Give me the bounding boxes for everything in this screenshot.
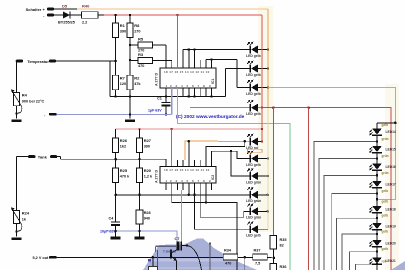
node	[267, 210, 270, 213]
wire	[54, 14, 63, 16]
op-amp U IC1 A277D	[155, 60, 217, 97]
wire	[272, 249, 274, 258]
wire pale yellow	[267, 108, 269, 230]
wire LED3 feed	[206, 60, 250, 88]
LED L10	[246, 221, 261, 237]
connector Schalter -	[43, 13, 54, 18]
resistor R26	[113, 129, 128, 152]
node	[114, 95, 117, 98]
svg-text:LED gelb: LED gelb	[246, 54, 261, 58]
wire	[376, 264, 378, 270]
node	[188, 48, 191, 51]
wire	[376, 213, 378, 223]
capacitor C4	[100, 194, 121, 240]
resistor R37	[253, 249, 268, 266]
svg-text:1k2: 1k2	[120, 145, 126, 149]
svg-text:470 k: 470 k	[120, 175, 130, 179]
LED L9	[246, 204, 261, 220]
svg-text:2 3 4 5 6 7 8: 2 3 4 5 6 7 8	[170, 179, 206, 183]
svg-text:R27: R27	[144, 138, 152, 143]
resistor R35	[270, 236, 286, 250]
wire pink	[116, 128, 262, 130]
wire orange right	[267, 9, 269, 108]
node	[138, 158, 141, 161]
capacitor C1	[148, 97, 171, 115]
wire	[258, 107, 262, 109]
resistor R25	[113, 159, 131, 182]
wire	[115, 61, 117, 75]
node	[267, 194, 270, 197]
node	[376, 250, 379, 253]
node	[114, 230, 117, 233]
wire	[165, 158, 167, 161]
ground	[135, 237, 145, 240]
svg-text:470: 470	[138, 64, 144, 68]
svg-text:gelb: gelb	[382, 229, 389, 233]
watermark blue triangle	[140, 239, 405, 270]
wire curve	[187, 246, 202, 270]
LED L1	[246, 42, 261, 58]
node	[165, 95, 168, 98]
wire	[139, 224, 141, 237]
LED L5	[246, 134, 259, 150]
node	[129, 113, 132, 116]
svg-text:940: 940	[144, 217, 150, 221]
ground	[12, 120, 22, 123]
wire	[376, 135, 378, 146]
svg-text:2.2: 2.2	[82, 21, 87, 25]
wire bus 8	[356, 264, 378, 270]
svg-text:LED grün: LED grün	[246, 180, 261, 184]
wire blue IC2 pin	[180, 190, 182, 242]
svg-text:+: +	[44, 113, 46, 117]
svg-text:900 bei 22°C: 900 bei 22°C	[22, 100, 45, 104]
wire	[376, 230, 378, 240]
op-amp U IC2 A277D	[155, 160, 217, 190]
svg-text:IC1: IC1	[211, 79, 215, 84]
wire	[267, 256, 274, 259]
node	[193, 194, 196, 197]
LED LED17	[369, 181, 396, 188]
node	[165, 113, 168, 116]
svg-text:R2: R2	[134, 76, 140, 81]
node	[210, 95, 213, 98]
wire dark red low	[308, 108, 310, 270]
node	[170, 128, 173, 131]
node	[114, 158, 117, 161]
resistor R5	[138, 37, 153, 53]
wire	[376, 247, 378, 258]
wire blue 2	[105, 231, 177, 242]
node	[267, 86, 270, 89]
svg-text:R40: R40	[82, 4, 90, 9]
resistor R28	[136, 210, 151, 224]
svg-text:R35: R35	[280, 238, 287, 242]
wire	[116, 152, 140, 159]
node	[376, 263, 379, 266]
node	[138, 194, 141, 197]
node	[138, 128, 141, 131]
wire	[153, 60, 172, 62]
node	[129, 14, 132, 17]
svg-text:R4: R4	[22, 93, 28, 98]
wire bus 2	[319, 158, 377, 270]
node	[376, 157, 379, 160]
resistor R8	[127, 15, 141, 37]
transistor T1	[156, 246, 177, 270]
wire	[115, 182, 117, 194]
wire LED7 feed	[231, 151, 250, 176]
label grun 0	[382, 137, 389, 141]
svg-text:R20: R20	[144, 168, 152, 173]
node	[307, 106, 310, 109]
wire	[189, 190, 195, 195]
wire	[16, 106, 18, 119]
node	[267, 175, 270, 178]
LED L2	[246, 61, 261, 77]
wire	[130, 44, 138, 46]
node	[15, 230, 18, 233]
wire	[376, 188, 378, 206]
svg-text:R1: R1	[120, 23, 126, 28]
wire	[258, 87, 268, 89]
svg-text:C1: C1	[157, 97, 162, 101]
wire	[188, 141, 190, 160]
wire bus 1	[314, 142, 377, 270]
connector 5.2V	[33, 256, 57, 260]
svg-text:gelb: gelb	[382, 189, 389, 193]
svg-text:LED grün: LED grün	[246, 199, 261, 203]
svg-text:390: 390	[120, 30, 126, 34]
resistor R40	[82, 4, 99, 25]
label grun 1	[382, 154, 389, 158]
svg-text:120: 120	[120, 82, 126, 86]
connector aux	[44, 113, 57, 118]
svg-text:Tank: Tank	[38, 154, 48, 159]
svg-text:R34: R34	[224, 249, 232, 253]
node	[376, 233, 379, 236]
node	[193, 48, 196, 51]
wire	[258, 68, 268, 70]
node	[376, 174, 379, 177]
LED LED16	[369, 164, 396, 171]
svg-text:LED18: LED18	[386, 208, 396, 212]
resistor R3	[138, 52, 153, 68]
svg-text:2 3 4 5 6 7 8: 2 3 4 5 6 7 8	[170, 84, 206, 88]
svg-text:gelb: gelb	[382, 247, 389, 251]
wire bus 5	[337, 218, 377, 270]
node	[186, 244, 189, 247]
label gelb top	[382, 123, 389, 127]
resistor R38 bottom	[148, 250, 158, 270]
svg-text:R28: R28	[144, 211, 151, 215]
wire 5.2V rail	[57, 256, 224, 258]
wire	[17, 157, 29, 210]
wire bus 6	[342, 234, 377, 270]
node	[394, 122, 397, 125]
wire	[70, 14, 81, 16]
node	[188, 194, 191, 197]
svg-text:LED16: LED16	[386, 165, 396, 169]
LED LED21	[369, 258, 396, 265]
svg-text:gelb: gelb	[382, 214, 389, 218]
diode D5	[58, 4, 75, 25]
svg-text:R7: R7	[120, 76, 126, 81]
ground	[12, 238, 22, 241]
resistor R34	[223, 249, 238, 266]
wire LED8 feed	[116, 194, 251, 196]
LED L4	[246, 100, 261, 116]
node	[376, 217, 379, 220]
svg-text:270: 270	[134, 30, 140, 34]
svg-text:R36: R36	[280, 265, 287, 269]
wire	[258, 175, 268, 177]
svg-text:gelb: gelb	[382, 123, 389, 127]
LED L7	[246, 168, 261, 184]
node	[188, 95, 191, 98]
svg-text:390: 390	[144, 145, 150, 149]
label grun 6	[382, 247, 389, 251]
wire	[153, 45, 166, 60]
svg-text:R8: R8	[134, 23, 140, 28]
text copyright	[176, 114, 245, 120]
wire bus 4	[332, 194, 377, 270]
LED LED18	[369, 206, 396, 213]
wire LED1 feed	[183, 50, 250, 61]
svg-text:LED gelb: LED gelb	[246, 112, 261, 116]
svg-text:A 277 D: A 277 D	[155, 170, 159, 183]
svg-text:grün: grün	[382, 171, 389, 175]
resistor R20	[136, 159, 153, 182]
wire	[258, 210, 268, 212]
svg-text:grün: grün	[382, 137, 389, 141]
node	[129, 44, 132, 47]
connector Schalter +	[26, 7, 55, 12]
node	[138, 230, 141, 233]
wire dark red row4	[262, 108, 391, 270]
node	[376, 140, 379, 143]
wire orange LED5 feed	[185, 141, 250, 160]
wire	[258, 228, 268, 230]
wire	[139, 182, 141, 210]
svg-text:18 17 16 15 14 13 12 11 10: 18 17 16 15 14 13 12 11 10	[164, 70, 210, 74]
svg-text:R25: R25	[120, 168, 128, 173]
resistor R36	[270, 258, 286, 270]
wire LED10 feed	[195, 195, 251, 229]
label grun 4	[382, 214, 389, 218]
wire	[205, 190, 207, 203]
wire blue	[57, 113, 172, 115]
wire red +supply	[104, 14, 262, 16]
node	[376, 192, 379, 195]
label grun 5	[382, 229, 389, 233]
wire green	[177, 88, 290, 270]
node	[267, 67, 270, 70]
wire	[129, 90, 131, 97]
node	[210, 58, 213, 61]
svg-text:LED grün: LED grün	[246, 216, 261, 220]
wire string top	[377, 123, 396, 129]
resistor R1	[113, 15, 127, 37]
node	[261, 140, 264, 143]
svg-text:D5: D5	[62, 4, 68, 9]
wire wrap right of IC1	[225, 69, 250, 97]
node	[205, 201, 208, 204]
wire red to pin	[176, 15, 178, 68]
capacitor C7	[175, 237, 188, 251]
wire LED feed y146	[206, 141, 245, 160]
wire	[54, 8, 77, 10]
node	[230, 150, 233, 153]
wire	[189, 50, 195, 61]
wire	[115, 90, 117, 97]
wire	[109, 61, 111, 97]
tank sensor R24	[11, 207, 30, 231]
wire orange row3	[268, 88, 396, 200]
wire orange top	[77, 8, 268, 10]
node	[176, 14, 179, 17]
svg-text:R26: R26	[120, 138, 128, 143]
wire	[258, 49, 268, 51]
wire LED6 feed	[212, 151, 251, 160]
highlight box	[248, 149, 263, 152]
ground	[125, 120, 135, 123]
node	[376, 198, 379, 201]
node	[129, 95, 132, 98]
node	[267, 157, 270, 160]
svg-text:R24: R24	[22, 211, 30, 216]
node	[129, 59, 132, 62]
wire	[115, 37, 117, 61]
wire	[376, 153, 378, 164]
LED LED19	[369, 223, 396, 230]
wire bus under IC1	[110, 96, 225, 98]
wire bus 7	[350, 252, 378, 270]
label grun 7	[382, 260, 387, 264]
node	[114, 60, 117, 63]
svg-text:82: 82	[280, 244, 284, 248]
svg-text:18 17 16 15 14 13 12 11 10: 18 17 16 15 14 13 12 11 10	[164, 168, 210, 172]
svg-text:470: 470	[225, 262, 231, 266]
svg-text:7,5: 7,5	[255, 262, 260, 266]
svg-text:LED gelb: LED gelb	[246, 234, 261, 238]
node	[267, 48, 270, 51]
svg-text:R37: R37	[254, 249, 261, 253]
svg-text:LED gelb: LED gelb	[246, 73, 261, 77]
LED LED20	[369, 240, 396, 247]
wire y202	[172, 190, 237, 270]
wire LED9 feed	[200, 190, 250, 217]
svg-text:LED gelb: LED gelb	[246, 92, 261, 96]
wire	[258, 194, 268, 196]
node	[188, 140, 191, 143]
svg-text:T 2N3055: T 2N3055	[163, 250, 177, 254]
svg-text:grün: grün	[382, 154, 389, 158]
LED L8	[246, 187, 261, 203]
LED LED15	[369, 146, 396, 153]
svg-text:LED gelb: LED gelb	[246, 163, 261, 167]
wire	[258, 141, 262, 143]
svg-text:Temperatur: Temperatur	[27, 59, 49, 64]
wire	[130, 60, 138, 62]
label grun 3	[382, 189, 389, 193]
svg-text:LED19: LED19	[386, 225, 396, 229]
connector Tank	[28, 154, 57, 159]
label gelb mid	[382, 200, 389, 204]
node	[243, 140, 246, 143]
svg-text:IC2: IC2	[211, 175, 215, 180]
wire	[376, 170, 378, 181]
wire	[258, 158, 268, 160]
svg-text:LED15: LED15	[386, 148, 396, 152]
node	[243, 256, 246, 259]
svg-text:LED21: LED21	[386, 259, 396, 263]
wire stub down	[244, 257, 246, 270]
wire stub down2	[209, 242, 211, 270]
LED L6	[246, 151, 261, 167]
thermistor R4	[11, 61, 45, 113]
label grun 2	[382, 171, 389, 175]
svg-text:LED14: LED14	[386, 130, 396, 134]
wire	[238, 256, 253, 258]
wire dark red mid	[272, 108, 274, 236]
node	[193, 95, 196, 98]
svg-text:LED20: LED20	[386, 242, 396, 246]
wire	[16, 224, 18, 237]
svg-text:R5: R5	[138, 37, 144, 42]
wire	[17, 60, 116, 62]
wire LED4 feed	[190, 107, 250, 109]
wire blue up	[171, 88, 173, 114]
wire	[129, 37, 131, 75]
svg-text:1,2 k: 1,2 k	[144, 175, 153, 179]
svg-text:A 277 D: A 277 D	[155, 73, 159, 86]
node	[261, 106, 264, 109]
svg-text:1µF 63V: 1µF 63V	[148, 109, 162, 113]
wire	[129, 97, 131, 119]
svg-text:R3: R3	[138, 52, 144, 57]
svg-text:(C) 2002 www.vestburgator.de: (C) 2002 www.vestburgator.de	[176, 114, 245, 120]
LED LED14	[369, 129, 396, 136]
svg-text:BY255/25: BY255/25	[58, 21, 75, 25]
node	[261, 128, 264, 131]
node	[273, 257, 276, 260]
connector Temperatur	[16, 59, 57, 64]
resistor R27	[136, 129, 151, 152]
wire	[98, 14, 104, 16]
resistor R2	[127, 75, 142, 90]
svg-text:47k: 47k	[134, 82, 141, 86]
svg-text:gelb: gelb	[382, 200, 389, 204]
svg-text:Schalter +: Schalter +	[26, 7, 46, 12]
wire bus 3	[324, 175, 377, 270]
LED L3	[246, 80, 261, 96]
svg-text:5,2 V out: 5,2 V out	[33, 256, 50, 260]
wire tank rail	[57, 157, 166, 160]
node	[15, 112, 18, 115]
resistor R7	[113, 75, 127, 90]
node	[114, 14, 117, 17]
wire red right	[261, 15, 263, 142]
node	[272, 106, 275, 109]
svg-text:LED17: LED17	[386, 183, 396, 187]
wire red down to IC2	[171, 129, 173, 160]
